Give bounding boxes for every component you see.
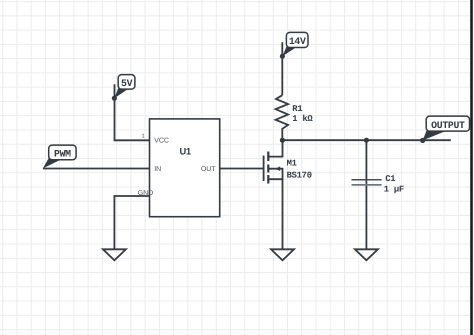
svg-text:OUTPUT: OUTPUT	[431, 120, 465, 131]
svg-text:OUT: OUT	[201, 166, 217, 173]
svg-text:1 µF: 1 µF	[384, 185, 404, 195]
svg-text:5V: 5V	[121, 78, 133, 89]
svg-text:BS170: BS170	[287, 170, 312, 180]
svg-text:M1: M1	[287, 159, 297, 169]
svg-text:1 kΩ: 1 kΩ	[292, 114, 313, 124]
svg-text:VCC: VCC	[154, 138, 169, 145]
svg-text:IN: IN	[154, 166, 161, 173]
svg-text:GND: GND	[138, 190, 154, 197]
svg-text:U1: U1	[180, 146, 191, 157]
svg-text:C1: C1	[385, 174, 395, 184]
svg-text:R1: R1	[292, 104, 302, 114]
svg-text:1: 1	[141, 134, 144, 140]
svg-text:PWM: PWM	[54, 148, 71, 159]
svg-text:14V: 14V	[289, 36, 306, 47]
